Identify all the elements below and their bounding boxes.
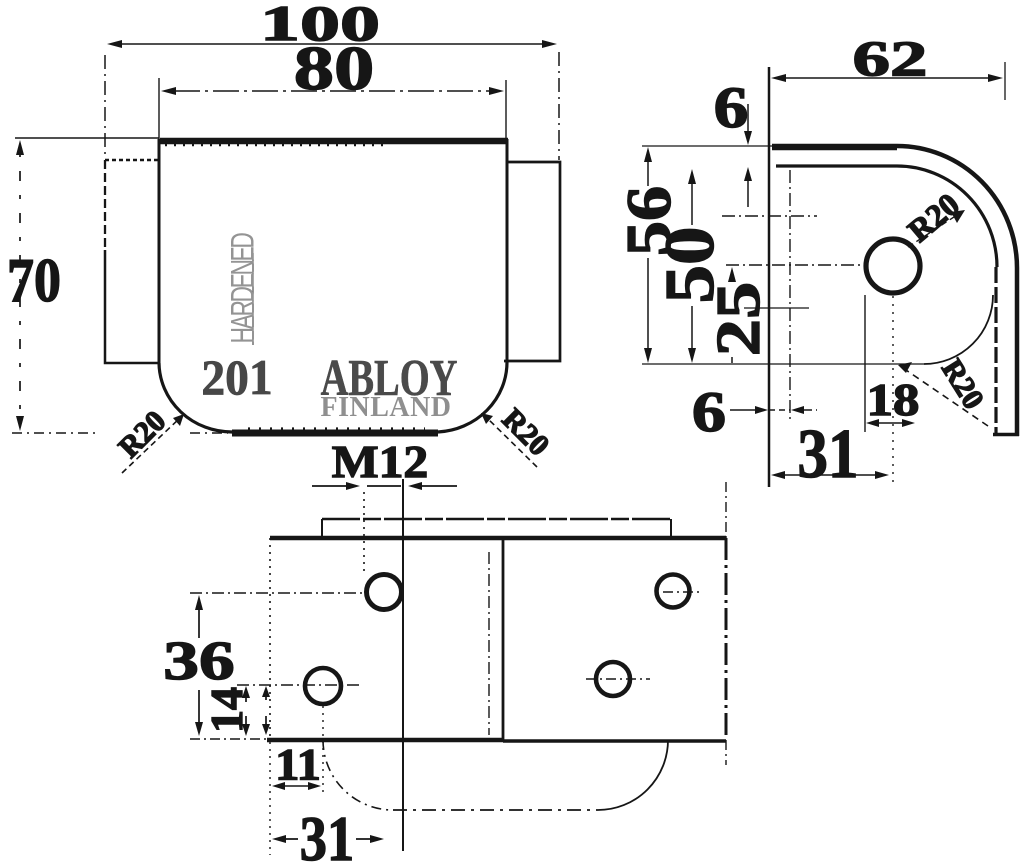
- svg-text:M12: M12: [332, 437, 429, 488]
- svg-text:11: 11: [275, 741, 321, 790]
- svg-text:36: 36: [163, 630, 234, 691]
- svg-text:62: 62: [853, 30, 928, 86]
- svg-text:18: 18: [867, 374, 920, 425]
- svg-text:HARDENED: HARDENED: [225, 233, 261, 343]
- svg-text:14: 14: [201, 687, 252, 733]
- svg-text:201: 201: [201, 350, 272, 405]
- svg-text:31: 31: [300, 803, 354, 863]
- svg-text:6: 6: [714, 75, 749, 139]
- svg-text:FINLAND: FINLAND: [320, 392, 451, 423]
- svg-text:70: 70: [7, 246, 61, 315]
- svg-text:25: 25: [704, 282, 773, 356]
- svg-text:80: 80: [294, 33, 375, 103]
- svg-text:6: 6: [692, 380, 726, 443]
- svg-text:31: 31: [798, 416, 859, 493]
